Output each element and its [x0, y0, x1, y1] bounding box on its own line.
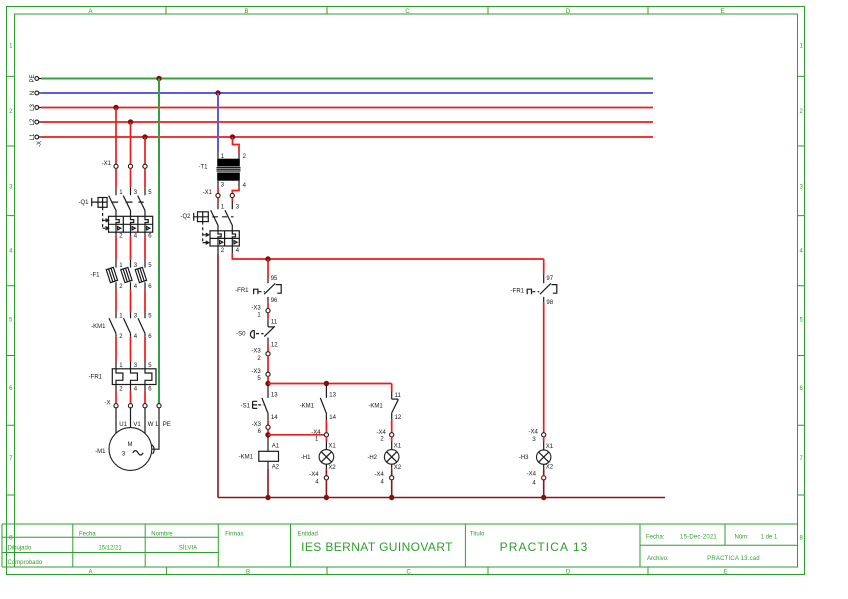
- wire X4-1 to H1: [326, 437, 336, 450]
- svg-text:5: 5: [800, 318, 804, 324]
- svg-text:Nombre: Nombre: [151, 531, 173, 537]
- svg-text:1: 1: [119, 263, 123, 269]
- svg-text:M: M: [128, 442, 133, 448]
- wire Q1 to F1 pole3: [144, 236, 146, 260]
- circuit breaker Q2: [180, 202, 239, 255]
- wire X1 to Q1 pole1: [115, 168, 117, 187]
- svg-text:X1: X1: [394, 444, 402, 450]
- wire X to motor PE: [152, 408, 159, 449]
- svg-text:1: 1: [119, 314, 123, 320]
- wire KM1-12 to X4-2: [391, 419, 393, 433]
- wire FR1 to X pole1: [115, 390, 117, 403]
- terminal X4-4 (H3): [527, 472, 546, 487]
- terminal strip X motor: [105, 400, 162, 408]
- svg-text:15-Dec-2021: 15-Dec-2021: [680, 535, 717, 541]
- svg-text:-F1: -F1: [91, 272, 101, 278]
- wire FR1 to X pole3: [144, 390, 146, 403]
- svg-text:L3: L3: [30, 104, 36, 111]
- svg-text:-X: -X: [37, 141, 43, 147]
- junction control node A: [265, 381, 270, 386]
- svg-text:1: 1: [315, 436, 319, 442]
- svg-text:Entidad: Entidad: [298, 531, 318, 537]
- svg-text:-Q2: -Q2: [180, 214, 191, 220]
- svg-text:-KM1: -KM1: [91, 324, 106, 330]
- svg-text:PE: PE: [163, 422, 171, 428]
- svg-text:4: 4: [800, 249, 804, 255]
- wire X3-6 to node: [267, 429, 269, 435]
- wire F1 to KM1 pole2: [130, 290, 132, 313]
- wire X4-2 to H2: [392, 437, 402, 450]
- svg-text:13: 13: [271, 393, 278, 399]
- svg-text:-X4: -X4: [377, 430, 387, 436]
- svg-text:U1: U1: [119, 422, 127, 428]
- transformer T1: [199, 152, 247, 189]
- svg-text:C: C: [407, 569, 412, 575]
- terminal L3 (bus left): [30, 104, 41, 111]
- svg-text:L1: L1: [30, 133, 36, 140]
- svg-text:X2: X2: [546, 465, 554, 471]
- wire feed corner to FR1-97: [543, 259, 545, 274]
- junction rail H2: [389, 495, 394, 500]
- terminal X3-2: [251, 349, 270, 362]
- svg-text:5: 5: [148, 314, 152, 320]
- wire KM1 to FR1 pole1: [115, 337, 117, 362]
- aux contact KM1 11-12: [368, 392, 402, 422]
- svg-text:-X3: -X3: [252, 422, 262, 428]
- svg-text:-FR1: -FR1: [235, 288, 249, 294]
- wire X3-1 to S0: [267, 313, 269, 319]
- svg-text:2: 2: [119, 334, 123, 340]
- svg-text:2: 2: [243, 154, 247, 160]
- svg-text:4: 4: [134, 234, 138, 240]
- wire rail corner to KM1 11: [391, 384, 393, 392]
- thermal contact FR1 97-98: [511, 274, 557, 306]
- svg-text:X1: X1: [328, 444, 336, 450]
- svg-text:-Q1: -Q1: [78, 200, 89, 206]
- svg-text:IES BERNAT GUINOVART: IES BERNAT GUINOVART: [301, 540, 453, 554]
- svg-text:4: 4: [532, 480, 536, 486]
- wire L1 bus: [41, 136, 653, 138]
- wire N drop to T1: [217, 93, 219, 152]
- svg-text:5: 5: [148, 190, 152, 196]
- junction rail H1: [324, 495, 329, 500]
- wire control rail: [268, 383, 392, 385]
- svg-text:2: 2: [119, 387, 123, 393]
- svg-text:2: 2: [380, 436, 384, 442]
- wire Q2-2 return rail: [217, 253, 219, 497]
- svg-text:5: 5: [148, 263, 152, 269]
- svg-text:L2: L2: [30, 118, 36, 125]
- junction rail H3: [541, 495, 546, 500]
- svg-text:3: 3: [134, 190, 138, 196]
- junction control feed: [265, 256, 270, 261]
- terminal X3-1: [251, 305, 270, 318]
- svg-text:B: B: [246, 569, 250, 575]
- pushbutton S1 start: [241, 386, 279, 422]
- svg-text:6: 6: [9, 386, 13, 392]
- junction S1 KM1coil node: [265, 432, 270, 437]
- svg-text:12: 12: [271, 343, 278, 349]
- svg-text:-KM1: -KM1: [239, 454, 254, 460]
- junction L3: [113, 105, 118, 110]
- svg-text:X2: X2: [328, 465, 336, 471]
- svg-text:B: B: [244, 9, 248, 15]
- svg-text:2: 2: [119, 284, 123, 290]
- svg-text:6: 6: [148, 284, 152, 290]
- terminal X4-2: [377, 430, 394, 442]
- wire Q1 to F1 pole2: [130, 236, 132, 260]
- svg-text:1: 1: [9, 44, 13, 50]
- wire FR1 to X pole2: [130, 390, 132, 403]
- svg-text:1: 1: [221, 204, 225, 210]
- terminal PE (bus left): [30, 74, 41, 82]
- svg-text:15/12/21: 15/12/21: [98, 546, 122, 552]
- svg-text:3: 3: [221, 182, 225, 188]
- wire X1 to Q2 pole1: [217, 198, 219, 202]
- wire KM1 to FR1 pole3: [144, 337, 146, 362]
- svg-text:V1: V1: [133, 422, 141, 428]
- svg-text:4: 4: [134, 284, 138, 290]
- svg-text:PRACTICA 13.cad: PRACTICA 13.cad: [707, 556, 760, 562]
- svg-text:-X4: -X4: [375, 472, 385, 478]
- svg-text:6: 6: [148, 234, 152, 240]
- svg-text:96: 96: [271, 298, 278, 304]
- circuit breaker Q1: [78, 187, 152, 240]
- svg-text:98: 98: [546, 300, 553, 306]
- wire S0 to X3-2: [267, 343, 269, 352]
- coil KM1: [239, 444, 280, 471]
- wire KM1 to FR1 pole2: [130, 337, 132, 362]
- wire S1 to X3-6: [267, 420, 269, 425]
- svg-text:-KM1: -KM1: [368, 404, 383, 410]
- svg-text:97: 97: [546, 276, 553, 282]
- svg-text:6: 6: [800, 386, 804, 392]
- svg-text:-X4: -X4: [529, 430, 539, 436]
- svg-text:4: 4: [134, 387, 138, 393]
- svg-text:3: 3: [800, 185, 804, 191]
- wire PE bus: [41, 78, 653, 80]
- svg-text:5: 5: [9, 318, 13, 324]
- wire L1 to T1: [233, 137, 240, 153]
- wire coil A2 to rail: [267, 469, 269, 498]
- wire feed to FR1-95: [267, 259, 269, 278]
- terminal strip X1 top: [102, 161, 147, 169]
- svg-text:C: C: [405, 9, 410, 15]
- svg-text:E: E: [720, 9, 724, 15]
- fuse F1: [91, 260, 153, 290]
- svg-text:Titulo: Titulo: [470, 531, 485, 537]
- svg-text:Dibujado: Dibujado: [8, 546, 32, 552]
- svg-text:-M1: -M1: [95, 449, 106, 455]
- wire X4-4 to rail (H2): [391, 480, 393, 498]
- lamp H1: [301, 450, 334, 465]
- svg-text:12: 12: [395, 415, 402, 421]
- svg-text:-X4: -X4: [527, 472, 537, 478]
- wire L1 drop: [144, 137, 146, 164]
- svg-text:-KM1: -KM1: [300, 403, 315, 409]
- svg-text:X1: X1: [546, 444, 554, 450]
- wire H2 to X4-4: [392, 464, 402, 475]
- aux contact KM1 13-14: [300, 386, 337, 422]
- svg-text:7: 7: [800, 456, 804, 462]
- svg-text:1: 1: [800, 44, 804, 50]
- svg-text:-H2: -H2: [367, 455, 377, 461]
- svg-text:-X3: -X3: [251, 349, 261, 355]
- svg-text:D: D: [566, 9, 571, 15]
- svg-text:4: 4: [9, 249, 13, 255]
- wire KM1-14 to X4-1: [325, 420, 327, 433]
- wire X to motor W1: [144, 408, 146, 434]
- svg-text:14: 14: [271, 415, 278, 421]
- junction PE: [156, 76, 161, 81]
- wire node to X4-1: [268, 434, 324, 436]
- terminal strip X1 mid: [203, 190, 235, 198]
- junction N: [215, 90, 220, 95]
- svg-text:PE: PE: [30, 74, 36, 82]
- lamp H3: [519, 450, 551, 464]
- svg-text:SÍLVIA: SÍLVIA: [179, 545, 197, 552]
- contactor KM1 main contacts: [91, 312, 152, 340]
- svg-text:Firmas: Firmas: [225, 531, 243, 537]
- svg-text:PRACTICA 13: PRACTICA 13: [500, 540, 589, 554]
- lamp H2: [367, 450, 399, 465]
- terminal X4-4 (H2): [375, 472, 394, 485]
- svg-text:3: 3: [532, 437, 536, 443]
- terminal X3-6: [252, 422, 270, 435]
- junction rail below coil: [265, 495, 270, 500]
- svg-text:-FR1: -FR1: [511, 288, 525, 294]
- junction L2: [128, 119, 133, 124]
- wire X4-4 to rail (H1): [325, 480, 327, 498]
- junction L1: [142, 134, 147, 139]
- svg-text:A2: A2: [272, 465, 280, 471]
- wire L3 drop: [115, 108, 117, 165]
- wire L3 bus: [41, 107, 653, 109]
- junction rail H1 branch: [324, 381, 329, 386]
- svg-text:95: 95: [271, 276, 278, 282]
- svg-text:3: 3: [236, 204, 240, 210]
- wire FR1-96 to X3-1: [267, 303, 269, 309]
- wire L2 bus: [41, 121, 653, 123]
- svg-text:D: D: [566, 569, 571, 575]
- wire H1 to X4-4: [326, 464, 336, 475]
- svg-text:X2: X2: [394, 465, 402, 471]
- wire H3 to X4-4: [544, 464, 554, 475]
- svg-text:-X4: -X4: [311, 430, 321, 436]
- terminal X4-1: [311, 430, 328, 442]
- svg-text:1 de 1: 1 de 1: [761, 535, 778, 541]
- svg-text:-T1: -T1: [199, 165, 209, 171]
- wire PE drop: [158, 79, 160, 404]
- svg-text:13: 13: [329, 393, 336, 399]
- terminal X3-5: [251, 369, 270, 382]
- wire Q1 to F1 pole1: [115, 236, 117, 260]
- wire F1 to KM1 pole1: [115, 290, 117, 313]
- motor M1: [95, 422, 171, 471]
- svg-text:2: 2: [9, 109, 13, 115]
- svg-text:4: 4: [243, 183, 247, 189]
- svg-text:4: 4: [236, 248, 240, 254]
- svg-text:6: 6: [148, 334, 152, 340]
- wire F1 to KM1 pole3: [144, 290, 146, 313]
- svg-text:-FR1: -FR1: [89, 375, 103, 381]
- wire X4-3 to H3: [544, 437, 554, 450]
- wire T1-4 to X1: [232, 187, 239, 193]
- TITLEBLOCK: [2, 524, 798, 567]
- svg-text:4: 4: [315, 480, 319, 486]
- wire X1 to Q1 pole2: [130, 168, 132, 187]
- wire N bus: [41, 92, 653, 94]
- svg-text:Fecha: Fecha: [79, 531, 96, 537]
- wire X3-5 to node: [267, 376, 269, 383]
- svg-text:A: A: [88, 569, 92, 575]
- motor PE entry arc: [152, 445, 154, 454]
- svg-text:-X3: -X3: [251, 369, 261, 375]
- svg-text:3: 3: [134, 314, 138, 320]
- svg-text:Comprobado: Comprobado: [8, 560, 43, 566]
- terminal L2 (bus left): [30, 118, 41, 125]
- svg-text:8: 8: [800, 536, 804, 542]
- svg-text:A: A: [88, 9, 92, 15]
- terminal L1 (bus left): [30, 133, 41, 140]
- svg-text:W 1: W 1: [148, 422, 159, 428]
- svg-text:8: 8: [9, 536, 13, 542]
- svg-text:2: 2: [257, 356, 261, 362]
- wire X to motor U1: [115, 408, 117, 434]
- svg-text:-X1: -X1: [102, 161, 112, 167]
- svg-text:14: 14: [329, 415, 336, 421]
- svg-text:Fecha:: Fecha:: [646, 535, 665, 541]
- svg-text:2: 2: [800, 109, 804, 115]
- svg-text:11: 11: [271, 319, 278, 325]
- svg-text:-X3: -X3: [251, 305, 261, 311]
- svg-text:N: N: [30, 91, 36, 95]
- wire X4-4 to rail (H3): [543, 480, 545, 498]
- wire Q2-4 control feed: [232, 253, 543, 259]
- svg-text:1: 1: [257, 313, 261, 319]
- svg-text:-X1: -X1: [203, 190, 213, 196]
- wire node to coil A1: [267, 437, 269, 451]
- svg-text:7: 7: [9, 456, 13, 462]
- wire X1 to Q1 pole3: [144, 168, 146, 187]
- terminal X4-4 (H1): [309, 472, 328, 485]
- wire T1-3 to X1: [217, 187, 219, 193]
- thermal contact FR1 95-96: [235, 276, 281, 304]
- wire X1 to Q2 pole2: [231, 198, 233, 202]
- svg-text:E: E: [724, 569, 728, 575]
- wire FR1-98 to X4-3: [543, 303, 545, 433]
- svg-text:11: 11: [395, 393, 402, 399]
- wire X3-2 to X3-5: [267, 356, 269, 372]
- svg-text:6: 6: [148, 387, 152, 393]
- thermal relay FR1: [89, 362, 156, 393]
- svg-text:-H3: -H3: [519, 455, 529, 461]
- svg-text:3: 3: [134, 263, 138, 269]
- svg-text:-S0: -S0: [236, 332, 246, 338]
- junction L1 to T1: [230, 134, 235, 139]
- svg-text:-X4: -X4: [309, 472, 319, 478]
- svg-text:6: 6: [258, 429, 262, 435]
- svg-text:-X: -X: [105, 400, 111, 406]
- svg-text:Archivo:: Archivo:: [647, 556, 669, 562]
- svg-text:4: 4: [381, 480, 385, 486]
- svg-text:3: 3: [9, 185, 13, 191]
- svg-text:5: 5: [257, 376, 261, 382]
- svg-text:1: 1: [119, 190, 123, 196]
- wire L2 drop: [130, 122, 132, 164]
- pushbutton S0 stop: [236, 318, 278, 348]
- terminal X4-3: [529, 430, 546, 443]
- svg-text:A1: A1: [272, 444, 280, 450]
- svg-text:2: 2: [221, 248, 225, 254]
- svg-text:4: 4: [134, 334, 138, 340]
- svg-text:2: 2: [119, 234, 123, 240]
- wire bottom return rail: [218, 497, 665, 499]
- wire X to motor V1: [130, 408, 132, 428]
- svg-text:-H1: -H1: [301, 455, 311, 461]
- svg-text:-S1: -S1: [241, 403, 251, 409]
- svg-text:Núm:: Núm:: [735, 535, 750, 541]
- terminal N (bus left): [30, 91, 41, 95]
